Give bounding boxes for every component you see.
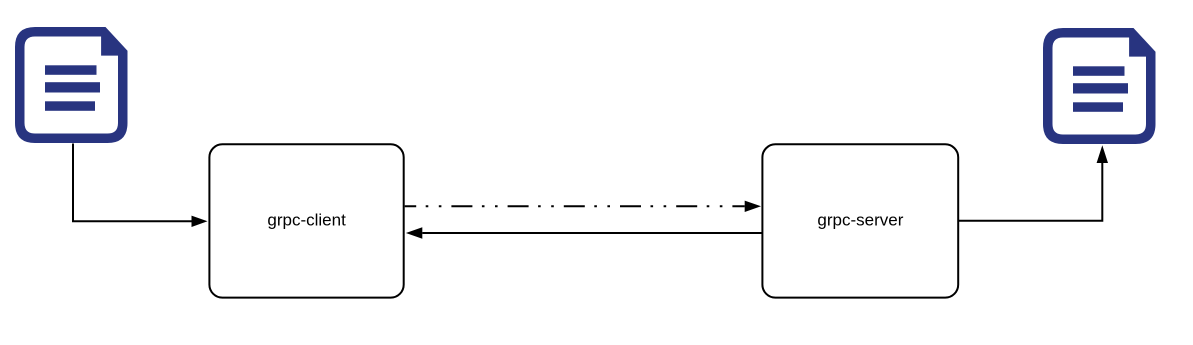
svg-text:grpc-server: grpc-server: [817, 211, 903, 230]
svg-text:grpc-client: grpc-client: [267, 211, 346, 230]
